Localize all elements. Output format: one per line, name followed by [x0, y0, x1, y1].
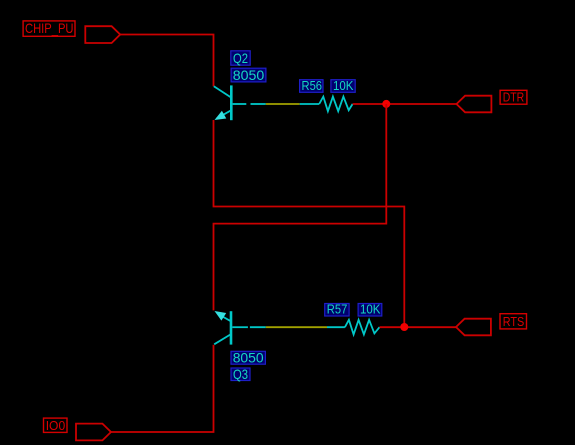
wire Q2 emitter to RTS junction [214, 120, 405, 327]
port CHIP_PU label [23, 20, 75, 36]
label R56 [300, 79, 323, 93]
Q3 base bar [230, 311, 233, 344]
wire IO0 to Q3 emitter [111, 345, 214, 432]
Q2 base pin lead [233, 103, 247, 105]
port RTS label [500, 314, 527, 329]
Q2 collector lead [214, 86, 232, 97]
wire Q3 base highlighted segment (olive) [266, 326, 327, 328]
svg-text:Q3: Q3 [233, 366, 248, 382]
label R57 [325, 303, 349, 317]
wire Q3 base to olive segment (cyan) [250, 326, 266, 328]
label 8050 (Q2) [231, 67, 266, 83]
transistor Q2 (8050 NPN) [214, 85, 247, 120]
svg-text:Q2: Q2 [233, 50, 248, 66]
port DTR symbol [457, 96, 492, 113]
transistor Q3 (8050 NPN) [214, 311, 248, 345]
label Q2 [231, 50, 250, 66]
svg-text:DTR: DTR [503, 90, 525, 105]
wire DTR junction to Q3 collector [214, 104, 387, 310]
Q2 base bar [230, 85, 233, 120]
resistor R57 [345, 320, 380, 335]
svg-text:8050: 8050 [233, 67, 265, 83]
Q2 emitter arrow [215, 111, 227, 120]
port DTR label [500, 90, 527, 105]
Q2 emitter lead [217, 110, 232, 118]
port IO0 label [44, 418, 68, 433]
wire olive to R57 lead (cyan) [327, 326, 345, 328]
svg-text:10K: 10K [333, 79, 354, 93]
label Q3 [231, 366, 250, 382]
svg-text:IO0: IO0 [46, 418, 65, 433]
Q3 base pin lead [232, 326, 248, 328]
wire CHIP_PU to Q2 collector [120, 35, 213, 87]
label 10K (R56) [331, 79, 355, 93]
port CHIP_PU symbol [85, 26, 120, 43]
wire Q2 base highlighted segment (olive) [266, 103, 300, 105]
label 10K (R57) [358, 303, 382, 317]
Q3 collector lead [214, 334, 231, 344]
svg-text:R57: R57 [327, 303, 348, 317]
svg-text:8050: 8050 [233, 350, 264, 366]
port IO0 symbol [76, 424, 111, 441]
resistor R56 [319, 97, 352, 112]
port RTS symbol [456, 319, 491, 336]
svg-text:RTS: RTS [503, 314, 525, 329]
wire olive to R56 lead (cyan) [300, 103, 320, 105]
svg-text:R56: R56 [302, 79, 323, 93]
junction dot DTR net [382, 100, 390, 108]
svg-text:CHIP_PU: CHIP_PU [25, 20, 74, 36]
wire R57 to RTS port [380, 326, 457, 328]
svg-text:10K: 10K [360, 303, 381, 317]
wire Q2 base to R56 (cyan segment) [251, 103, 266, 105]
wire R56 to DTR port [353, 103, 457, 105]
junction dot RTS net [400, 323, 408, 331]
label 8050 (Q3) [231, 350, 265, 366]
Q3 emitter arrow [215, 311, 227, 321]
Q3 emitter lead [218, 314, 231, 321]
